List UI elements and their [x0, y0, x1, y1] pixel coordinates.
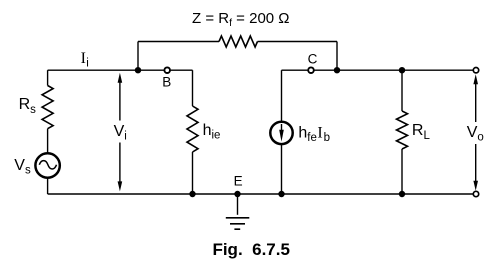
resistor h_ie	[187, 106, 198, 152]
current source h_fe*I_b	[270, 122, 292, 144]
arrow Vo (double-headed)	[475, 80, 477, 185]
arrow Vi (double-headed)	[119, 79, 121, 186]
wire: h_ie lower lead	[192, 152, 194, 194]
junction dot: h_ie bottom	[189, 191, 195, 197]
junction dot: feedback right node	[334, 67, 340, 73]
wire: feedback rail left of Rf	[138, 41, 219, 43]
output terminal top (open)	[473, 68, 478, 73]
svg-text:Z = Rf = 200 Ω: Z = Rf = 200 Ω	[192, 10, 290, 29]
wire: h_ie branch upper lead	[192, 70, 194, 106]
wire: output top rail	[282, 69, 477, 71]
wire: current source lower lead	[281, 145, 283, 195]
wire: Rs to Vs source	[47, 129, 49, 154]
ground	[237, 194, 239, 215]
wire: Vs to bottom rail	[47, 178, 49, 194]
svg-text:i: i	[86, 57, 89, 69]
wire: feedback rail right of Rf	[258, 41, 338, 43]
svg-text:C: C	[308, 51, 318, 66]
source Vs (sine voltage source)	[35, 153, 59, 177]
svg-text:Fig. 6.7.5: Fig. 6.7.5	[212, 240, 289, 259]
svg-text:b: b	[324, 132, 330, 144]
resistor Rf (feedback, 200 ohm)	[219, 36, 258, 47]
svg-text:I: I	[317, 125, 322, 142]
junction dot: R_L top	[399, 67, 405, 73]
resistor R_L	[397, 111, 408, 149]
wire: R_L upper lead	[401, 70, 403, 111]
wire: R_L lower lead	[401, 149, 403, 194]
wire: left branch top segment (Rs upper lead)	[47, 70, 49, 85]
wire: feedback right riser	[336, 42, 338, 71]
svg-text:B: B	[162, 75, 171, 90]
node C (open terminal on collector wire)	[308, 67, 314, 73]
node B (open terminal on base wire)	[164, 67, 170, 73]
output terminal bottom (open)	[473, 191, 478, 196]
wire: bottom rail	[48, 193, 476, 195]
junction dot: R_L bottom	[399, 191, 405, 197]
junction dot: feedback left node	[135, 67, 141, 73]
wire: input top rail from Vs branch to h_ie branch	[48, 69, 193, 71]
resistor Rs	[42, 86, 53, 129]
junction dot: node E	[234, 191, 240, 197]
wire: feedback left riser	[137, 42, 139, 71]
wire: current source branch upper lead	[281, 70, 283, 121]
svg-text:E: E	[234, 173, 243, 188]
svg-text:I: I	[81, 50, 86, 67]
junction dot: current source bottom	[278, 191, 284, 197]
